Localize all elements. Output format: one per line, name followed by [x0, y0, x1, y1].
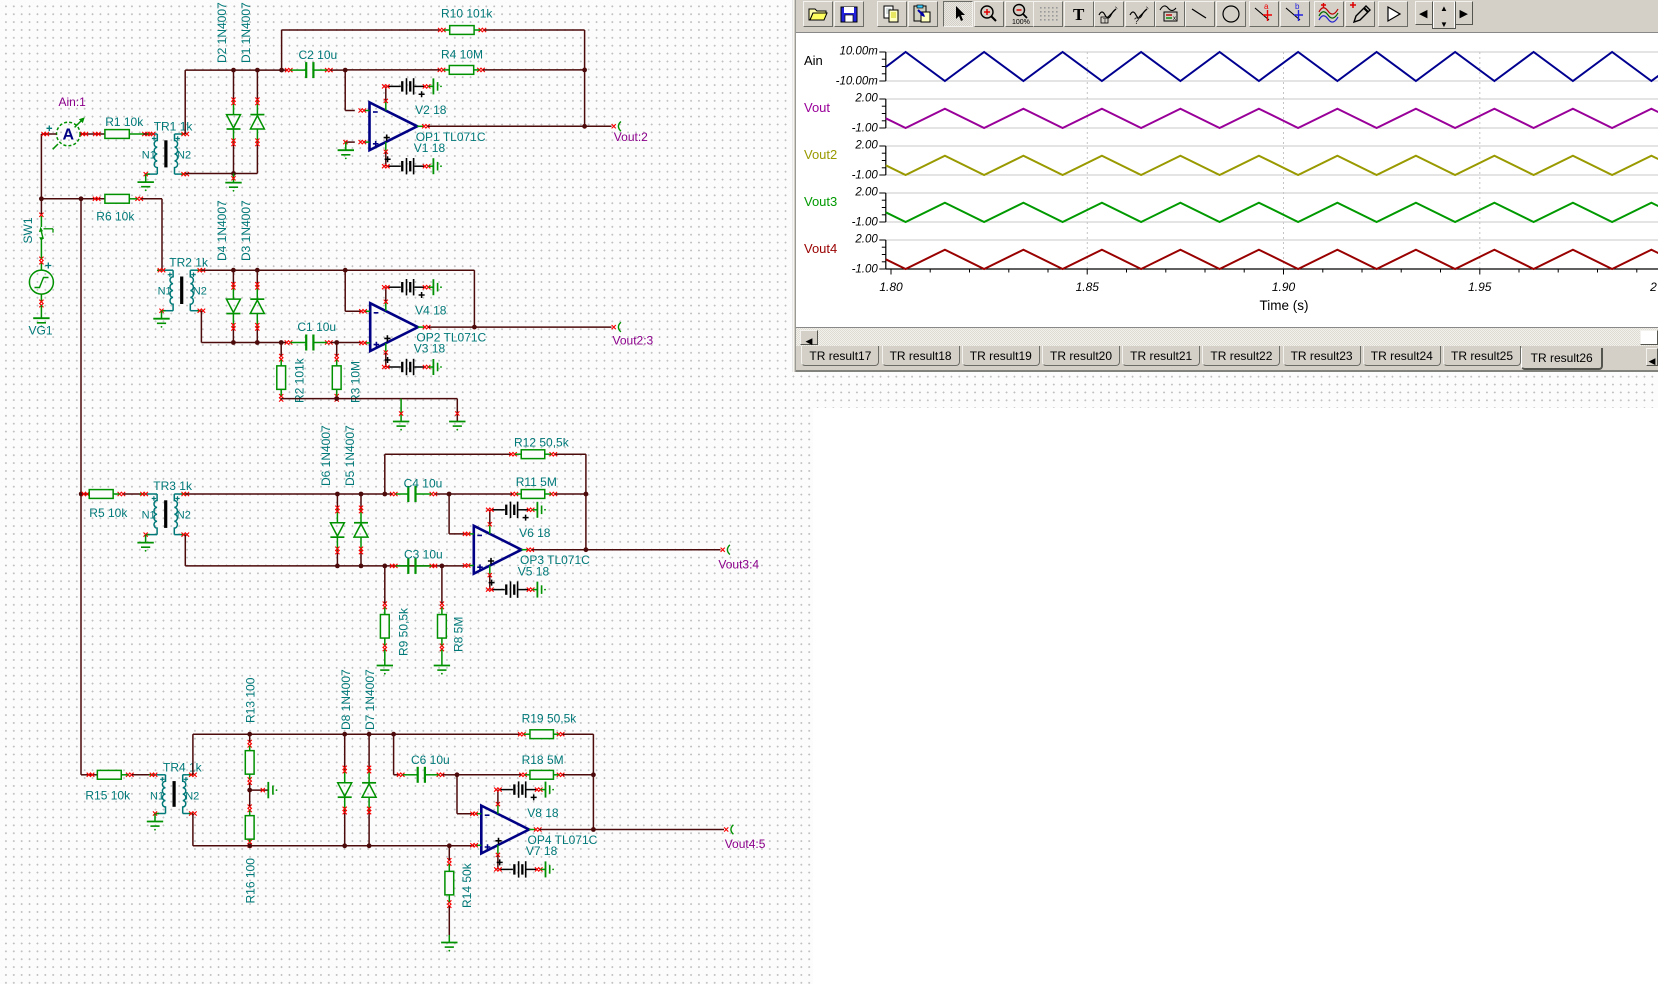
svg-text:R19 50,5k: R19 50,5k [522, 711, 578, 725]
svg-text:N1: N1 [142, 510, 156, 522]
node R13 top [247, 732, 252, 737]
resistor R9 [380, 615, 389, 639]
node D6 bottom [335, 564, 340, 569]
wire TR1 secondary bottom bus [185, 173, 257, 175]
svg-text:R1 10k: R1 10k [105, 115, 144, 129]
svg-text:C4 10u: C4 10u [404, 476, 443, 490]
wire to OP2 noninverting input [337, 342, 363, 344]
svg-text:R10 101k: R10 101k [441, 7, 493, 21]
ground 2 stage2 [449, 421, 465, 423]
svg-text:D2 1N4007: D2 1N4007 [215, 2, 229, 63]
wire C1 to noninverting node [331, 342, 337, 344]
diode D8 [344, 734, 346, 769]
resistor R15 [97, 770, 121, 779]
wire R6 to TR2 [141, 198, 162, 200]
op-amp OP4 [481, 806, 529, 854]
resistor R3 [332, 366, 341, 390]
wire stub to ground under diodes [233, 174, 235, 183]
wire R11 to output vertical [555, 493, 586, 495]
svg-text:V7 18: V7 18 [526, 844, 558, 858]
svg-text:Vout: Vout [804, 100, 830, 115]
node R4 output junction [582, 68, 587, 73]
battery V3 [387, 366, 401, 368]
output pin Vout3:4 [721, 548, 725, 552]
node C4 inverting junction [447, 492, 452, 497]
wire R18 to output vertical [563, 774, 594, 776]
svg-text:Time (s): Time (s) [1260, 298, 1309, 313]
svg-text:V8 18: V8 18 [527, 806, 559, 820]
svg-text:D3 1N4007: D3 1N4007 [239, 200, 253, 261]
svg-text:R3 10M: R3 10M [349, 361, 363, 403]
svg-text:N1: N1 [142, 150, 156, 162]
wire R1 to TR1 [144, 133, 148, 135]
node R11 output junction [584, 492, 589, 497]
node bus B [79, 196, 84, 201]
wire TR4 top to bus [192, 734, 194, 775]
node C6 takeoff [391, 732, 396, 737]
wire feedback up to R10 line [281, 30, 283, 70]
svg-text:A: A [63, 127, 75, 144]
resistor R11 [521, 490, 545, 499]
svg-text:1.85: 1.85 [1076, 280, 1100, 294]
wire TR2 secondary bottom [200, 311, 202, 343]
wire C4 to inverting node [435, 493, 449, 495]
wire noninverting input ground stub [346, 141, 355, 143]
wire TR3 bottom bus [184, 535, 186, 566]
wire R2 R3 bottom bus [280, 399, 282, 400]
svg-text:R16 100: R16 100 [244, 858, 258, 904]
transformer TR1 [152, 133, 158, 135]
diode D3 [256, 270, 258, 286]
svg-text:Vout3: Vout3 [804, 194, 837, 209]
wire TR1 secondary top to diode bus [184, 70, 186, 134]
wire TR2 top bus [201, 269, 474, 271]
svg-text:TR1 1k: TR1 1k [154, 120, 194, 134]
svg-text:N2: N2 [185, 790, 199, 802]
svg-text:N1: N1 [150, 790, 164, 802]
ground below VG1 [33, 317, 49, 319]
svg-text:1.95: 1.95 [1468, 280, 1492, 294]
resistor R1 [105, 130, 129, 139]
svg-text:R4 10M: R4 10M [441, 48, 483, 62]
switch SW1 [40, 241, 42, 259]
node D4 bottom [231, 340, 236, 345]
node diode bus top D2 [231, 68, 236, 73]
node R16 bottom [247, 843, 252, 848]
ground sideways at center tap [267, 782, 269, 798]
svg-text:Vout3:4: Vout3:4 [718, 557, 759, 571]
wire OP2 output [428, 326, 611, 328]
svg-text:Vout2:3: Vout2:3 [613, 334, 654, 348]
svg-text:D4 1N4007: D4 1N4007 [215, 200, 229, 261]
svg-text:V6 18: V6 18 [519, 526, 551, 540]
node A junction [39, 196, 44, 201]
diode D2 [233, 70, 235, 101]
wire down to OP4 inverting input [456, 775, 458, 814]
svg-text:-1.00: -1.00 [852, 264, 879, 276]
svg-text:N2: N2 [177, 150, 191, 162]
node OP4 output junction [591, 827, 596, 832]
node R14 junction [447, 843, 452, 848]
wire C6 line from bus [393, 734, 395, 775]
svg-text:10.00m: 10.00m [839, 45, 878, 57]
svg-text:V1 18: V1 18 [414, 141, 446, 155]
node R2 C1 junction [279, 340, 284, 345]
resistor R19 [530, 730, 554, 739]
node TR3 bus D5 [359, 492, 364, 497]
capacitor C1 [305, 335, 307, 351]
wire down to OP3 inverting input [448, 494, 450, 534]
svg-text:N2: N2 [177, 510, 191, 522]
node D8 bottom [342, 843, 347, 848]
wire R10 to output node [484, 29, 584, 31]
wire ammeter to R1 [80, 133, 105, 135]
node TR3 bus D6 [335, 492, 340, 497]
output pin Vout:2 [612, 124, 616, 128]
resistor R12 [521, 450, 545, 459]
ground under R14 [441, 942, 457, 944]
ground under R9 [377, 665, 393, 667]
wire bus to R6 [81, 198, 105, 200]
battery V4 [387, 286, 401, 288]
battery V6 [491, 509, 505, 511]
svg-text:-10.00m: -10.00m [836, 76, 879, 88]
voltage generator VG1 [29, 270, 53, 294]
diode D7 [368, 734, 370, 769]
svg-text:N2: N2 [193, 286, 207, 298]
svg-text:Ain:1: Ain:1 [59, 95, 87, 109]
wire OP2 feedback from output [473, 270, 475, 327]
svg-text:R15 10k: R15 10k [85, 788, 131, 802]
svg-text:Ain: Ain [804, 53, 823, 68]
svg-text:TR2 1k: TR2 1k [169, 256, 209, 270]
wire output node vertical [584, 70, 586, 126]
node R3 junction [334, 340, 339, 345]
node OP3 output junction [584, 547, 589, 552]
svg-text:R13 100: R13 100 [244, 677, 258, 723]
node diode bus bottom D2 [231, 171, 236, 176]
node inverting input net [343, 68, 348, 73]
wire R5 to TR3 [123, 493, 141, 495]
resistor R5 [89, 490, 113, 499]
diode D1 [256, 70, 258, 101]
resistor R2 [277, 366, 286, 390]
svg-text:D5 1N4007: D5 1N4007 [343, 425, 357, 486]
transformer TR3 [144, 493, 157, 495]
node OP2 feedback junction [472, 325, 477, 330]
op-amp OP3 [474, 526, 522, 574]
OP3 power pin wires [489, 525, 491, 534]
ground under diode bus [225, 182, 241, 184]
transformer TR4 [154, 774, 166, 776]
svg-text:V5 18: V5 18 [518, 564, 550, 578]
diode D5 [360, 494, 362, 509]
battery V2 [387, 85, 401, 87]
svg-text:2: 2 [1649, 280, 1657, 294]
wire R12 to right vertical [555, 453, 586, 455]
transformer TR2 [162, 269, 174, 271]
wire OP3 output [532, 549, 721, 551]
bus B vertical wire [80, 199, 82, 494]
svg-text:Vout2: Vout2 [804, 147, 837, 162]
node D5 bottom [359, 564, 364, 569]
svg-text:V2 18: V2 18 [415, 103, 447, 117]
svg-text:R14 50k: R14 50k [460, 862, 474, 908]
node bus R5 junction [79, 492, 84, 497]
capacitor C6 [417, 767, 419, 783]
svg-text:R5 10k: R5 10k [89, 506, 128, 520]
node R8 junction [440, 564, 445, 569]
output pin Vout4:5 [724, 827, 728, 831]
svg-text:D1 1N4007: D1 1N4007 [239, 2, 253, 63]
battery V7 [499, 868, 513, 870]
capacitor C2 [305, 62, 307, 78]
node TR2 bus inverting takeoff [343, 268, 348, 273]
svg-text:R6 10k: R6 10k [96, 209, 135, 223]
battery V1 [387, 165, 401, 167]
svg-text:R18 5M: R18 5M [522, 753, 564, 767]
node output Vout junction [582, 124, 587, 129]
ground under R8 [434, 665, 450, 667]
wire feedback up to R12 line [384, 454, 386, 494]
svg-text:VG1: VG1 [29, 324, 53, 338]
diode D6 [336, 494, 338, 509]
wire OP1 output to Vout [427, 125, 611, 127]
wire center tap to ground [249, 789, 251, 791]
svg-text:R8 5M: R8 5M [452, 617, 466, 652]
diode D4 [232, 270, 234, 286]
op-amp OP1 [370, 102, 418, 150]
svg-text:V3 18: V3 18 [414, 342, 446, 356]
wire OP4 output [539, 829, 724, 831]
node TR2 bus D3 [255, 268, 260, 273]
wire node A to R6 node [41, 198, 81, 200]
svg-text:2.00: 2.00 [854, 233, 878, 245]
wire TR3 top bus [185, 493, 384, 495]
node R9 junction [382, 564, 387, 569]
svg-text:Vout:2: Vout:2 [614, 130, 648, 144]
svg-text:N1: N1 [158, 286, 172, 298]
svg-text:-1.00: -1.00 [852, 123, 879, 135]
node D3 bottom [255, 340, 260, 345]
resistor R6 [105, 194, 129, 203]
svg-text:R2 101k: R2 101k [293, 357, 307, 403]
svg-text:C3 10u: C3 10u [404, 547, 443, 561]
svg-text:2.00: 2.00 [854, 92, 878, 104]
svg-text:C1 10u: C1 10u [297, 320, 336, 334]
wire ammeter minus lead [41, 133, 56, 135]
resistor R13 [245, 751, 254, 775]
battery V8 [499, 789, 513, 791]
ground at OP1 noninverting input [338, 149, 354, 151]
svg-text:1.80: 1.80 [879, 280, 903, 294]
svg-text:D6 1N4007: D6 1N4007 [319, 425, 333, 486]
node D7 top [367, 732, 372, 737]
ground 1 stage2 [393, 421, 409, 423]
svg-text:D7 1N4007: D7 1N4007 [363, 669, 377, 730]
battery V5 [491, 589, 505, 591]
svg-text:V4 18: V4 18 [415, 304, 447, 318]
svg-text:SW1: SW1 [21, 217, 35, 243]
capacitor C3 [407, 558, 409, 574]
node diode bus top D1 [255, 68, 260, 73]
wire output vertical stage3 [585, 494, 587, 550]
output pin Vout2:3 [612, 325, 616, 329]
wire stub ground 2 [456, 399, 458, 421]
svg-text:R11 5M: R11 5M [516, 475, 557, 489]
svg-text:R9 50,5k: R9 50,5k [397, 607, 411, 656]
OP1 power pin wires [385, 102, 387, 111]
wire C2 to inverting node [331, 69, 346, 71]
node R18 output junction [591, 772, 596, 777]
ammeter Ain [57, 122, 81, 146]
resistor R14 [445, 871, 454, 895]
svg-text:Vout4: Vout4 [804, 241, 837, 256]
svg-text:R12 50,5k: R12 50,5k [514, 435, 570, 449]
svg-text:TR4 1k: TR4 1k [163, 760, 203, 774]
svg-text:-1.00: -1.00 [852, 170, 879, 182]
resistor R8 [438, 615, 447, 639]
wire bus to R5 [81, 493, 89, 495]
node D8 top [342, 732, 347, 737]
wire to OP2 inverting input [344, 270, 346, 311]
resistor R18 [530, 770, 554, 779]
wire R19 to output vertical [563, 733, 594, 735]
svg-text:C2 10u: C2 10u [299, 48, 338, 62]
wire C6 to node [443, 774, 458, 776]
node R13 R16 center tap [247, 788, 252, 793]
wire input bus up to ammeter [40, 134, 42, 199]
svg-text:TR3 1k: TR3 1k [153, 479, 193, 493]
svg-text:C6 10u: C6 10u [411, 753, 450, 767]
resistor R4 [449, 66, 473, 75]
OP2 power pin wires [385, 303, 387, 311]
capacitor C4 [407, 486, 409, 502]
wire node A to switch [40, 199, 42, 214]
wire down to inverting input [344, 70, 346, 110]
resistor R10 [450, 26, 474, 35]
svg-text:D8 1N4007: D8 1N4007 [339, 669, 353, 730]
resistor R16 [245, 816, 254, 840]
svg-text:1.90: 1.90 [1272, 280, 1296, 294]
wire R15 to TR4 [132, 774, 151, 776]
op-amp OP2 [370, 303, 418, 351]
node C4 R12 takeoff [382, 492, 387, 497]
wire inverting node to R4 [345, 69, 439, 71]
node C2 feedback takeoff [279, 68, 284, 73]
node D7 bottom [367, 843, 372, 848]
node C6 inverting junction [455, 772, 460, 777]
svg-text:Vout4:5: Vout4:5 [725, 837, 766, 851]
wire TR4 bottom bus [192, 814, 194, 846]
wire R4 to output node [483, 69, 585, 71]
node TR2 bus D4 [231, 268, 236, 273]
wire stub ground 1 [400, 399, 402, 421]
svg-text:-1.00: -1.00 [852, 217, 879, 229]
wire bus corner to R15 [80, 494, 82, 775]
node R3 bottom [334, 396, 339, 401]
svg-text:2.00: 2.00 [854, 186, 878, 198]
svg-text:2.00: 2.00 [854, 139, 878, 151]
OP4 power pin wires [497, 805, 499, 814]
